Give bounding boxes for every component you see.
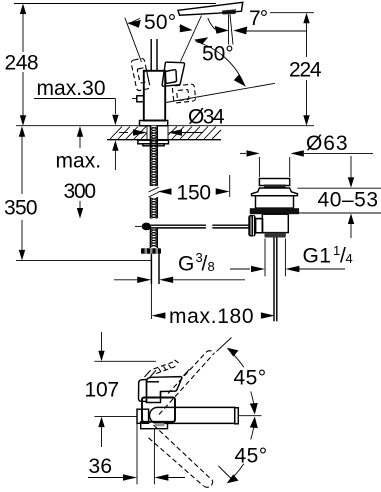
svg-text:350: 350	[4, 197, 38, 220]
svg-text:max.: max.	[56, 150, 102, 173]
svg-text:40–53: 40–53	[318, 189, 379, 212]
svg-text:7°: 7°	[249, 7, 269, 30]
svg-text:Ø34: Ø34	[188, 106, 225, 129]
svg-text:36: 36	[89, 455, 113, 478]
svg-text:50°: 50°	[144, 11, 177, 34]
svg-text:Ø63: Ø63	[306, 132, 348, 155]
svg-text:224: 224	[289, 59, 322, 82]
svg-text:max.180: max.180	[169, 305, 254, 328]
svg-text:107: 107	[85, 379, 120, 402]
svg-text:max.30: max.30	[37, 77, 107, 100]
svg-text:G1: G1	[303, 245, 332, 268]
svg-text:150: 150	[177, 182, 212, 205]
svg-text:300: 300	[64, 180, 97, 203]
svg-text:G: G	[178, 253, 195, 276]
svg-text:248: 248	[5, 52, 40, 75]
svg-text:45°: 45°	[234, 367, 267, 390]
svg-text:4: 4	[346, 251, 353, 266]
svg-text:50°: 50°	[202, 43, 234, 66]
svg-text:8: 8	[208, 259, 215, 274]
svg-text:45°: 45°	[235, 445, 268, 468]
